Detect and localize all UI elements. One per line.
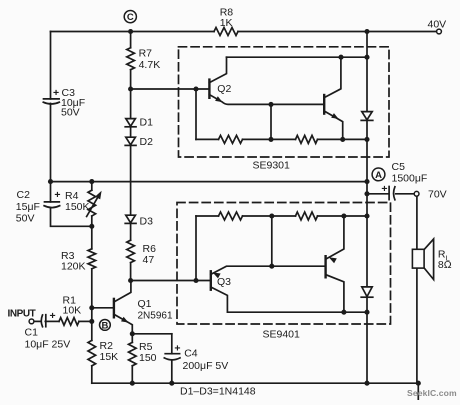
svg-text:10μF 25V: 10μF 25V: [25, 338, 71, 350]
svg-text:47: 47: [143, 254, 155, 266]
svg-text:1K: 1K: [220, 17, 233, 29]
svg-text:C: C: [127, 12, 134, 23]
svg-text:SE9301: SE9301: [253, 159, 291, 171]
svg-text:150: 150: [139, 352, 157, 364]
svg-text:15μF: 15μF: [16, 201, 40, 213]
svg-text:L: L: [446, 254, 450, 263]
svg-text:R6: R6: [143, 243, 157, 255]
svg-text:120K: 120K: [61, 260, 86, 272]
svg-text:50V: 50V: [16, 212, 35, 224]
svg-text:4.7K: 4.7K: [139, 59, 161, 71]
svg-text:D3: D3: [140, 215, 154, 227]
svg-text:C1: C1: [25, 327, 39, 339]
svg-text:C5: C5: [392, 161, 406, 173]
svg-text:15K: 15K: [100, 351, 119, 363]
svg-text:10K: 10K: [63, 304, 82, 316]
svg-text:SE9401: SE9401: [263, 328, 301, 340]
svg-text:A: A: [375, 170, 382, 181]
svg-text:+: +: [50, 310, 56, 322]
svg-text:50V: 50V: [61, 106, 80, 118]
svg-text:Q2: Q2: [217, 83, 231, 95]
svg-text:70V: 70V: [428, 188, 447, 200]
svg-text:150K: 150K: [65, 201, 90, 213]
svg-text:C2: C2: [17, 189, 31, 201]
svg-text:1500μF: 1500μF: [392, 172, 428, 184]
svg-text:200μF 5V: 200μF 5V: [183, 360, 229, 372]
svg-text:+: +: [53, 87, 59, 99]
svg-text:R7: R7: [139, 47, 153, 59]
svg-text:B: B: [101, 320, 108, 331]
svg-text:SeekIC.com: SeekIC.com: [407, 388, 457, 398]
svg-text:+: +: [174, 342, 180, 354]
svg-text:2N5961: 2N5961: [138, 311, 173, 322]
svg-text:+: +: [54, 189, 60, 201]
svg-text:C4: C4: [184, 348, 198, 360]
svg-text:+: +: [381, 183, 387, 195]
svg-text:D1–D3=1N4148: D1–D3=1N4148: [180, 385, 256, 397]
svg-text:Q1: Q1: [138, 298, 152, 310]
svg-text:INPUT: INPUT: [8, 308, 36, 319]
svg-text:Q3: Q3: [217, 276, 231, 288]
svg-text:R4: R4: [65, 190, 79, 202]
svg-text:D1: D1: [140, 117, 154, 129]
svg-text:D2: D2: [140, 136, 154, 148]
svg-text:40V: 40V: [428, 18, 447, 30]
